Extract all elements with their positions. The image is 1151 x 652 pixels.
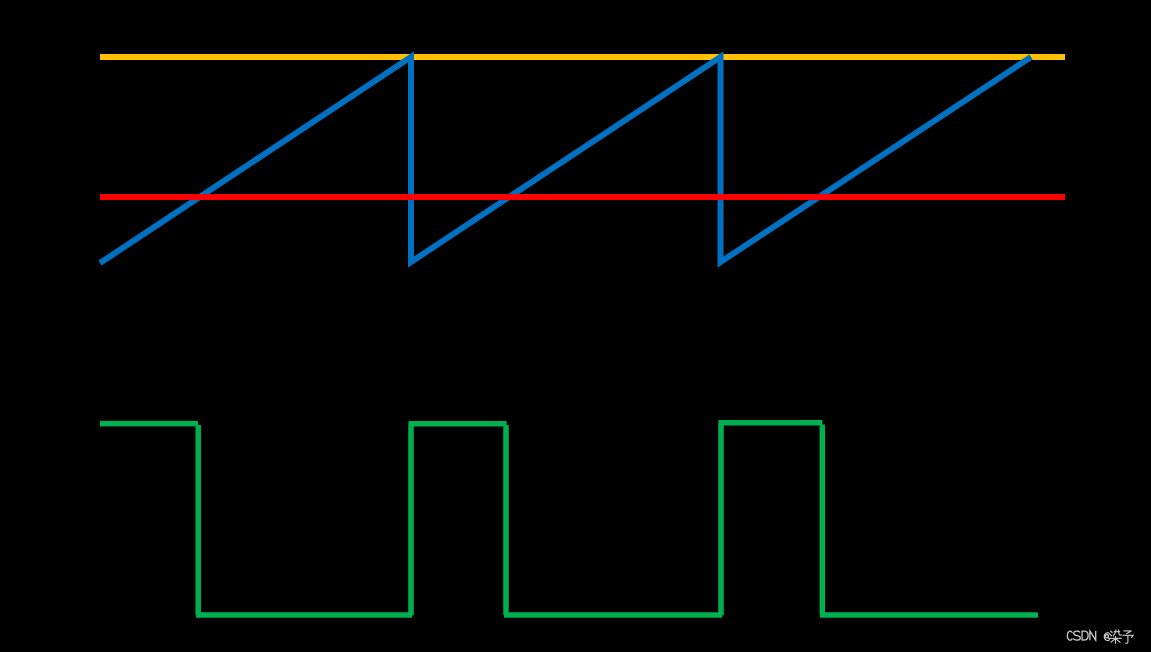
green rising edge 2 <box>718 423 724 616</box>
green high segment 3 <box>719 420 823 426</box>
blue sawtooth carrier waveform <box>100 57 1031 263</box>
green low segment 1 <box>196 612 412 618</box>
green PWM output waveform <box>100 423 1038 616</box>
green falling edge 3 <box>820 425 826 616</box>
watermark glyph: 染 (vector approximation) <box>1110 630 1122 644</box>
green high segment 2 <box>409 421 507 427</box>
watermark letter C <box>1067 631 1072 640</box>
green low segment 3 <box>820 612 1038 618</box>
watermark symbol @ <box>1104 633 1110 641</box>
yellow carrier-maximum level line <box>100 54 1065 60</box>
green rising edge 1 <box>408 423 414 615</box>
watermark letter N <box>1090 631 1096 640</box>
watermark glyph: 予 (vector approximation) <box>1123 631 1133 643</box>
red reference / compare level line <box>100 194 1065 200</box>
watermark letter D <box>1082 631 1088 640</box>
watermark letter S <box>1073 631 1080 640</box>
green falling edge 1 <box>195 425 201 615</box>
green falling edge 2 <box>503 425 509 615</box>
green high segment 1 <box>100 421 198 427</box>
green low segment 2 <box>504 612 722 618</box>
